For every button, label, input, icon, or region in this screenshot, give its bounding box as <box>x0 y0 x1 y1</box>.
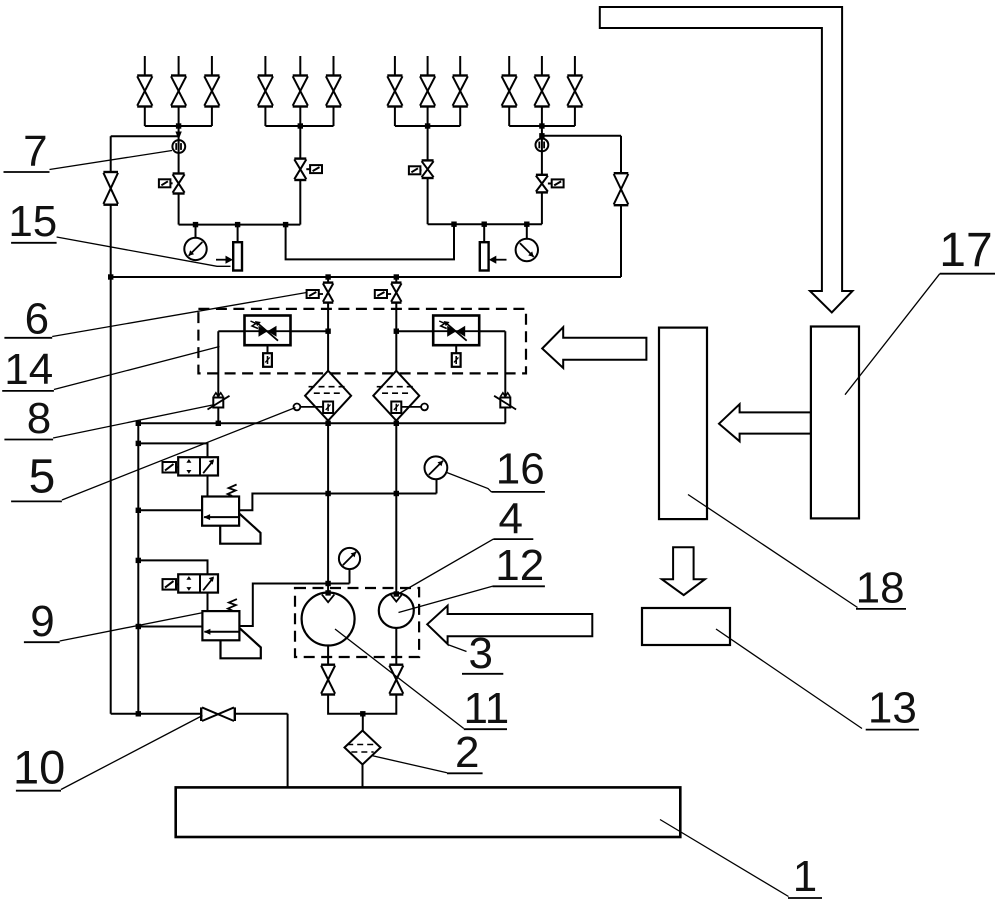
cylinder shutoff valve group 2 col 1 <box>258 76 273 107</box>
junction dot reg2line pipe1 <box>325 581 330 586</box>
pilot solenoid valve lower 9 <box>163 574 219 592</box>
leader 3 <box>448 645 467 652</box>
leader 11 <box>335 629 464 729</box>
solenoid valve group 3 <box>422 160 434 178</box>
label 7 <box>4 127 50 176</box>
label 15 <box>8 197 57 246</box>
process block 13 <box>642 608 730 645</box>
block arrow 18 down <box>662 547 705 595</box>
wire valveC2 top stem <box>395 277 397 283</box>
svg-text:11: 11 <box>464 684 510 733</box>
solenoid box valve C2 <box>375 290 387 298</box>
wire group4 downpipe lower <box>541 192 543 224</box>
label 5 <box>11 451 62 504</box>
wire right vertical to busC <box>620 205 622 277</box>
wire right vertical upper <box>620 136 622 173</box>
junction dot mfc1-pipe1 <box>325 329 330 334</box>
wire bus D <box>138 422 505 424</box>
arrow into flow transducer B <box>489 256 507 264</box>
wire stem cylinder valve group 1 col 3 <box>211 56 213 76</box>
cylinder shutoff valve group 3 col 2 <box>420 76 435 107</box>
shutoff valve 10 <box>201 707 235 721</box>
wire bypass right vertical <box>504 331 506 397</box>
wire drop group 3 col 2 <box>427 107 429 127</box>
flow indicator circle 7 <box>172 140 185 153</box>
junction dot busA gauge tap <box>193 222 198 227</box>
cylinder shutoff valve group 1 col 1 <box>137 76 152 107</box>
label 10 <box>13 740 65 793</box>
filter dryer 5 left <box>294 371 352 421</box>
flow transducer B <box>480 242 489 270</box>
filter dryer right <box>373 371 428 421</box>
wire drop group 4 col 1 <box>508 107 510 127</box>
cylinder shutoff valve group 2 col 2 <box>293 76 308 107</box>
junction dot busB gauge tap <box>524 222 529 227</box>
junction dot pilot feed r1 <box>136 508 141 513</box>
wire right branch horizontal <box>542 135 621 137</box>
pressure regulator upper <box>202 485 260 544</box>
wire drop group 2 col 2 <box>299 107 301 127</box>
line valve C1 <box>323 283 333 303</box>
wire group3 downpipe upper <box>427 126 429 160</box>
label 8 <box>4 394 53 443</box>
wire stem cylinder valve group 2 col 3 <box>333 56 335 76</box>
wire left branch horizontal <box>111 135 179 137</box>
wire drop group 1 col 1 <box>144 107 146 127</box>
junction dot group 1 <box>176 123 181 128</box>
svg-text:4: 4 <box>499 494 523 543</box>
svg-text:9: 9 <box>30 597 54 646</box>
wire stem cylinder valve group 3 col 3 <box>459 56 461 76</box>
svg-text:10: 10 <box>13 740 65 793</box>
wire gaugeB stem <box>526 224 528 239</box>
svg-text:14: 14 <box>4 345 53 394</box>
sensor stub mfc right <box>452 345 461 367</box>
pressure gauge 16 <box>425 456 448 479</box>
leader 13 <box>716 629 862 729</box>
leader 14 <box>54 347 220 390</box>
wire group1 downpipe upper <box>178 126 180 174</box>
process block 17 <box>811 327 859 519</box>
relief check valve 8 left <box>208 393 230 410</box>
process block 18 <box>659 328 707 519</box>
wire pilot column <box>137 423 139 714</box>
cylinder shutoff valve group 4 col 1 <box>502 76 517 107</box>
wire left vertical upper <box>110 136 112 172</box>
label 9 <box>24 597 60 646</box>
wire mfc1 left link <box>218 330 244 332</box>
block arrow bent down <box>600 7 853 313</box>
wire solenoid-to-valve group4 <box>548 183 552 185</box>
leader 1 <box>660 820 789 897</box>
wire drop to tank <box>287 714 289 788</box>
wire feed regulator1 <box>138 509 202 511</box>
junction dot pump1 inlet <box>325 590 330 595</box>
wire pump1 drop <box>328 695 363 714</box>
solenoid box group 3 <box>409 166 421 174</box>
relief check valve right <box>494 393 516 410</box>
wire solenoid-to-valve group1 <box>170 182 172 184</box>
wire group4 downpipe upper <box>541 126 543 175</box>
svg-text:6: 6 <box>25 294 49 343</box>
wire reg1 outlet <box>239 494 436 511</box>
wire reg2 outlet <box>239 584 349 627</box>
wire bottom left horizontal <box>111 713 202 715</box>
solenoid valve group 4 <box>536 175 548 193</box>
leader 18 <box>688 495 858 608</box>
label 13 <box>866 684 919 733</box>
wire valve2-to-reg2 <box>207 593 209 612</box>
junction dot busB flowmeter tap <box>482 222 487 227</box>
wire manifold bus group 3 <box>395 125 460 127</box>
sensor stub mfc left <box>263 345 272 367</box>
wire stem cylinder valve group 4 col 1 <box>508 56 510 76</box>
solenoid box group 4 <box>552 179 564 187</box>
wire mfc2 right link <box>479 330 505 332</box>
wire left vertical lower <box>110 277 112 714</box>
wire box-to-valveC2 <box>387 293 391 295</box>
label 6 <box>4 294 52 343</box>
junction dot pilot feed v2 <box>136 558 141 563</box>
junction dot busC pipe2 <box>394 274 399 279</box>
leader 10 <box>61 716 203 790</box>
wire feed regulator2 <box>138 626 202 628</box>
cylinder shutoff valve group 1 col 3 <box>204 76 219 107</box>
wire stem cylinder valve group 1 col 2 <box>178 56 180 76</box>
wire left vertical to bus C <box>110 205 112 277</box>
solenoid box group 1 <box>159 179 171 187</box>
wire pump1 outlet <box>327 646 329 665</box>
wire flowmeterB stem <box>483 224 485 242</box>
leader 7 <box>50 151 173 170</box>
junction dot mfc2-pipe2 <box>394 329 399 334</box>
wire group3 downpipe lower <box>427 178 429 224</box>
wire gaugeP stem <box>349 569 351 584</box>
wire diamond2 to busD <box>395 421 397 424</box>
pressure regulator lower <box>202 599 260 658</box>
solenoid valve group 2 <box>294 159 306 180</box>
junction dot busD pipe1 <box>325 421 330 426</box>
wire link busA-busB <box>286 224 454 259</box>
wire gauge16 stem <box>436 479 438 494</box>
wire valve10 to drop <box>235 713 288 715</box>
solenoid valve group 1 <box>173 174 185 194</box>
label 18 <box>856 564 906 613</box>
solenoid box valve C1 <box>307 290 319 298</box>
wire drop group 4 col 3 <box>574 107 576 127</box>
junction dot busA flowmeter tap <box>235 222 240 227</box>
pilot solenoid valve upper <box>163 457 219 475</box>
label 11 <box>464 684 510 733</box>
wire drop group 2 col 1 <box>264 107 266 127</box>
wire box-to-valveC1 <box>319 293 323 295</box>
wire bypass left vertical <box>217 331 219 397</box>
svg-text:15: 15 <box>8 197 57 246</box>
svg-text:7: 7 <box>23 127 47 176</box>
label 17 <box>939 224 995 277</box>
svg-text:1: 1 <box>793 852 817 901</box>
flow transducer 15 <box>233 242 242 270</box>
junction dot busD left corner <box>136 421 141 426</box>
wire pipe1 lower <box>327 423 329 593</box>
dashed enclosure flow controllers <box>198 309 526 374</box>
wire feed pilot valve2 <box>138 560 207 574</box>
dashed enclosure pumps <box>295 588 419 657</box>
label 12 <box>492 541 545 590</box>
wire flowmeterA stem <box>237 225 239 243</box>
wire pump2 drop <box>363 695 397 714</box>
leader 4 <box>397 539 494 595</box>
block arrow into enclosure <box>542 327 646 368</box>
label 2 <box>447 728 483 777</box>
junction dot pilot feed r2 <box>136 624 141 629</box>
wire drop group 1 col 2 <box>178 107 180 127</box>
junction dot pump2 inlet <box>394 591 399 596</box>
cylinder shutoff valve group 3 col 1 <box>387 76 402 107</box>
wire manifold bus group 2 <box>265 125 333 127</box>
wire drop group 4 col 2 <box>541 107 543 127</box>
junction dot pilotline pipe1 <box>325 491 330 496</box>
wire bypass left lower <box>217 408 219 424</box>
wire pump2 outlet <box>395 628 397 665</box>
leader 16 <box>446 472 492 492</box>
leader 12 <box>399 586 493 612</box>
wire drop group 2 col 3 <box>333 107 335 127</box>
wire stem cylinder valve group 4 col 2 <box>541 56 543 76</box>
cylinder shutoff valve group 3 col 3 <box>453 76 468 107</box>
svg-text:17: 17 <box>939 224 992 277</box>
wire merge to filter2 <box>362 714 364 731</box>
wire stem cylinder valve group 2 col 2 <box>299 56 301 76</box>
junction dot pilot bottom <box>136 711 141 716</box>
wire bypass right lower <box>504 408 506 424</box>
pressure gauge B <box>516 239 538 261</box>
svg-text:5: 5 <box>29 451 56 504</box>
wire drop group 3 col 1 <box>394 107 396 127</box>
svg-text:8: 8 <box>27 394 51 443</box>
wire stem cylinder valve group 1 col 1 <box>144 56 146 76</box>
pump2 inlet vee <box>391 595 402 602</box>
gas source tank 1 <box>176 787 681 837</box>
wire drop group 1 col 3 <box>211 107 213 127</box>
wire manifold bus group 1 <box>145 125 212 127</box>
suction filter 2 <box>345 731 381 765</box>
junction dot busD bypassL <box>216 421 221 426</box>
leader 6 <box>52 293 306 337</box>
arrow into flow transducer 15 <box>216 256 233 264</box>
svg-text:3: 3 <box>469 629 493 678</box>
junction dot pilotline pipe2 <box>394 491 399 496</box>
leader 2 <box>372 756 448 773</box>
junction dot group4 tap <box>539 133 544 138</box>
wire gaugeA stem <box>195 225 197 238</box>
mass flow controller right <box>433 316 479 346</box>
wire diamond1 to busD <box>327 421 329 424</box>
pressure gauge A <box>184 238 206 260</box>
wire bus A <box>179 224 301 226</box>
label 4 <box>493 494 533 543</box>
wire valve1-to-reg1 <box>207 476 209 497</box>
junction dot left busC <box>108 274 113 279</box>
wire mfc1 right link <box>291 330 329 332</box>
wire stem cylinder valve group 2 col 1 <box>264 56 266 76</box>
leader 8 <box>53 405 212 438</box>
wire bus B <box>428 223 542 225</box>
junction dot busC pipe1 <box>325 274 330 279</box>
compressor pump 11 large <box>302 593 355 646</box>
leader 17 <box>845 274 940 395</box>
wire pipe2 lower <box>395 423 397 593</box>
label 16 <box>491 445 545 494</box>
cylinder shutoff valve group 4 col 2 <box>534 76 549 107</box>
wire group2 downpipe lower <box>299 180 301 225</box>
wire mfc2 left link <box>396 330 433 332</box>
svg-text:16: 16 <box>496 445 545 494</box>
svg-text:2: 2 <box>455 728 479 777</box>
wire group2 downpipe upper <box>299 126 301 159</box>
junction dot group 4 <box>539 123 544 128</box>
line valve C2 <box>391 283 401 303</box>
manual valve right tall <box>614 173 629 205</box>
junction dot group 2 <box>298 123 303 128</box>
cylinder shutoff valve group 4 col 3 <box>567 76 582 107</box>
junction dot busA link tap <box>283 222 288 227</box>
wire pipe2 upper <box>395 303 397 371</box>
label 1 <box>788 852 822 901</box>
wire manifold bus group 4 <box>509 125 575 127</box>
wire group1 downpipe lower <box>178 194 180 225</box>
block arrow 17 to 18 <box>719 404 811 441</box>
leader 15 <box>57 237 231 266</box>
wire stem cylinder valve group 3 col 2 <box>427 56 429 76</box>
flow indicator circle group4 <box>536 139 549 152</box>
leader 5 <box>62 408 296 501</box>
leader 9 <box>60 613 204 642</box>
wire stem cylinder valve group 3 col 1 <box>394 56 396 76</box>
cylinder shutoff valve group 2 col 3 <box>326 76 341 107</box>
pump1 inlet vee <box>322 595 334 603</box>
svg-text:12: 12 <box>495 541 544 590</box>
junction dot group 3 <box>425 123 430 128</box>
wire bus C <box>111 276 621 278</box>
manual valve left tall <box>103 172 118 205</box>
label 3 <box>462 629 503 678</box>
solenoid box group 2 <box>310 165 322 173</box>
wire valveC1 top stem <box>327 277 329 283</box>
junction dot busD pipe2 <box>394 421 399 426</box>
svg-text:18: 18 <box>856 564 905 613</box>
label 14 <box>2 345 54 394</box>
wire feed pilot valve1 <box>138 443 207 457</box>
junction dot busB link <box>451 222 456 227</box>
wire stem cylinder valve group 4 col 3 <box>574 56 576 76</box>
wire filter2 to tank <box>362 765 364 788</box>
block arrow gas inlet 3 <box>427 606 592 644</box>
valve below pump2 <box>389 665 403 695</box>
flow arrow on group1 pipe <box>175 132 181 140</box>
junction dot pilot feed v1 <box>136 441 141 446</box>
svg-text:13: 13 <box>868 684 917 733</box>
wire solenoid-to-valve group2 <box>306 168 310 170</box>
wire solenoid-to-valve group3 <box>420 169 421 171</box>
mass flow controller 14 left <box>245 316 291 346</box>
wire pipe1 upper <box>327 303 329 371</box>
compressor pump 12 small <box>379 593 414 628</box>
valve below pump1 <box>321 665 335 695</box>
wire drop group 3 col 3 <box>459 107 461 127</box>
cylinder shutoff valve group 1 col 2 <box>171 76 186 107</box>
junction dot pump merge <box>360 711 365 716</box>
pressure gauge pump inlet <box>339 548 360 569</box>
